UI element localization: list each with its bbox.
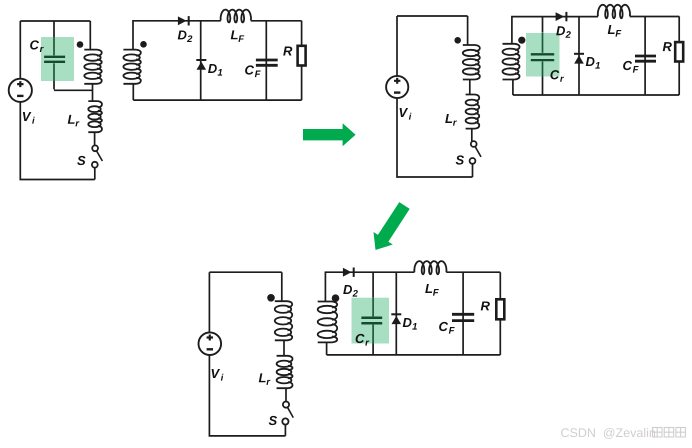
label LF (circuit2) (608, 25, 622, 37)
inductor Lr (circuit1) (88, 101, 102, 132)
inductor primary winding (circuit3) (275, 301, 292, 340)
diode D1 (circuit2) (574, 53, 584, 64)
diode D2 (circuit1) (178, 16, 190, 25)
switch S (circuit1) (92, 145, 103, 167)
resistor R (circuit2) (675, 42, 683, 61)
wire: secondary top rail (circuit3) (325, 272, 500, 301)
voltage source Vi (circuit3) (199, 332, 222, 355)
wire: CF branch (circuit1) (265, 21, 267, 100)
label Vi (circuit3) (212, 369, 224, 381)
wire: secondary top rail (circuit2) (512, 17, 679, 44)
switch S (circuit3) (282, 402, 293, 425)
inductor LF (circuit3) (414, 261, 446, 274)
diode D2 (circuit2) (556, 12, 568, 21)
wire: secondary bottom rail (circuit3) (327, 354, 501, 356)
label S (circuit1) (77, 156, 85, 165)
wire: circuit3 primary loop (209, 272, 285, 436)
label R (circuit3) (481, 301, 490, 310)
wire: CF branch (circuit2) (644, 16, 646, 95)
highlight rectangle around Cr (circuit2) (526, 33, 560, 77)
wire: D1 branch (circuit2) (578, 17, 580, 95)
polarity dot primary (circuit2) (454, 37, 461, 44)
wire: Cr lead inside highlight (circuit1) (53, 37, 55, 81)
wire: switch to bottom (circuit2) (472, 164, 474, 177)
switch S (circuit2) (470, 141, 481, 164)
polarity dot primary (circuit3) (267, 294, 275, 302)
wire: circuit2 primary loop (397, 16, 473, 177)
wire: secondary winding to bottom rail (circuit1) (132, 84, 134, 100)
polarity dot secondary (circuit3) (332, 294, 340, 302)
wire: D1 branch (circuit3) (395, 272, 397, 355)
wire: primary winding to Lr (circuit3) (283, 340, 285, 356)
label D1 (circuit1) (208, 64, 222, 76)
wire: Cr branch bottom (circuit2) (542, 77, 544, 96)
label D1 (circuit2) (586, 57, 600, 69)
label S (circuit3) (269, 416, 277, 425)
wire: Cr branch top (circuit1) (53, 21, 55, 37)
inductor Lr (circuit3) (277, 356, 293, 388)
inductor LF (circuit1) (221, 10, 251, 23)
label Vi (circuit1) (23, 112, 35, 124)
inductor primary winding (circuit2) (463, 45, 480, 80)
wire: Cr lead inside highlight (circuit3) (372, 298, 374, 344)
label Vi (circuit2) (400, 108, 412, 120)
label CF (circuit1) (245, 65, 261, 77)
polarity dot primary (circuit1) (77, 41, 84, 48)
wire: D1 branch (circuit1) (200, 21, 202, 100)
green arrow right (circuit1 to circuit2) (303, 123, 356, 146)
wire: Cr lead inside highlight (circuit2) (542, 33, 544, 77)
wire: Cr branch bottom (circuit3) (372, 343, 374, 355)
label R (circuit1) (283, 47, 292, 56)
wire: R branch (circuit1) (301, 21, 303, 100)
wire: Cr branch top (circuit3) (372, 272, 374, 298)
label Lr (circuit3) (259, 373, 271, 385)
diode D1 (circuit1) (196, 59, 206, 70)
voltage source Vi (circuit2) (386, 76, 408, 98)
diode D2 (circuit3) (343, 268, 355, 277)
watermark CJK characters (653, 428, 686, 438)
wire: Cr branch top (circuit2) (542, 17, 544, 33)
inductor secondary winding (circuit2) (503, 44, 520, 80)
wire: R branch (circuit2) (678, 16, 680, 95)
wire: secondary top rail (circuit1) (133, 21, 302, 50)
wire: Lr to switch (circuit2) (471, 129, 473, 142)
capacitor CF (circuit3) (452, 314, 474, 320)
wire: switch to bottom rail (circuit1) (94, 168, 96, 180)
wire: Lr to switch (circuit3) (285, 388, 287, 401)
watermark text CSDN @Zevalin (561, 428, 655, 439)
label LF (circuit3) (425, 284, 439, 296)
wire: Lr to switch (circuit1) (94, 132, 96, 145)
inductor Lr (circuit2) (466, 95, 480, 129)
capacitor CF (circuit2) (635, 56, 656, 61)
label S (circuit2) (456, 155, 464, 164)
highlight rectangle around Cr (circuit3) (352, 298, 390, 344)
wire: secondary bottom rail (circuit2) (513, 94, 679, 96)
label R (circuit2) (663, 42, 672, 51)
voltage source Vi (circuit1) (9, 79, 32, 102)
green arrow diagonal (circuit2 to circuit3) (374, 202, 410, 250)
wire: secondary winding to bottom (circuit3) (326, 342, 328, 355)
label D2 (circuit1) (178, 30, 193, 42)
label CF (circuit3) (439, 322, 455, 334)
wire: primary winding to Lr (circuit1) (92, 84, 94, 101)
wire: primary winding to Lr (circuit2) (469, 80, 471, 95)
capacitor Cr (circuit2) (531, 54, 554, 60)
diode D1 (circuit3) (391, 313, 401, 324)
wire: secondary winding to bottom (circuit2) (512, 80, 514, 96)
resistor R (circuit3) (496, 299, 504, 319)
polarity dot secondary (circuit1) (140, 41, 147, 48)
inductor LF (circuit2) (598, 5, 630, 18)
highlight rectangle around Cr (circuit1) (41, 37, 74, 81)
wire: circuit1 primary loop (20, 21, 95, 180)
capacitor CF (circuit1) (256, 60, 278, 65)
label Cr (circuit1) (30, 40, 44, 52)
capacitor Cr (circuit3) (361, 318, 382, 323)
label CF (circuit2) (623, 61, 639, 73)
label LF (circuit1) (231, 30, 245, 42)
label D2 (circuit3) (343, 285, 358, 297)
resistor R (circuit1) (298, 46, 306, 66)
label Cr (circuit3) (356, 334, 370, 346)
capacitor Cr (circuit1) (44, 57, 65, 62)
label Lr (circuit1) (68, 115, 80, 127)
label D2 (circuit2) (556, 26, 571, 38)
wire: R branch (circuit3) (499, 272, 501, 355)
label D1 (circuit3) (403, 318, 417, 330)
inductor secondary winding (circuit1) (123, 50, 140, 84)
wire: Cr branch bottom (circuit1) (54, 81, 93, 90)
label Lr (circuit2) (445, 114, 457, 126)
wire: secondary bottom rail (circuit1) (133, 99, 301, 101)
inductor secondary winding (circuit3) (318, 302, 338, 343)
inductor primary winding (circuit1) (84, 50, 101, 84)
wire: CF branch (circuit3) (462, 272, 464, 355)
wire: switch to bottom (circuit3) (284, 425, 286, 436)
label Cr (circuit2) (550, 70, 564, 82)
polarity dot secondary (circuit2) (518, 37, 525, 44)
